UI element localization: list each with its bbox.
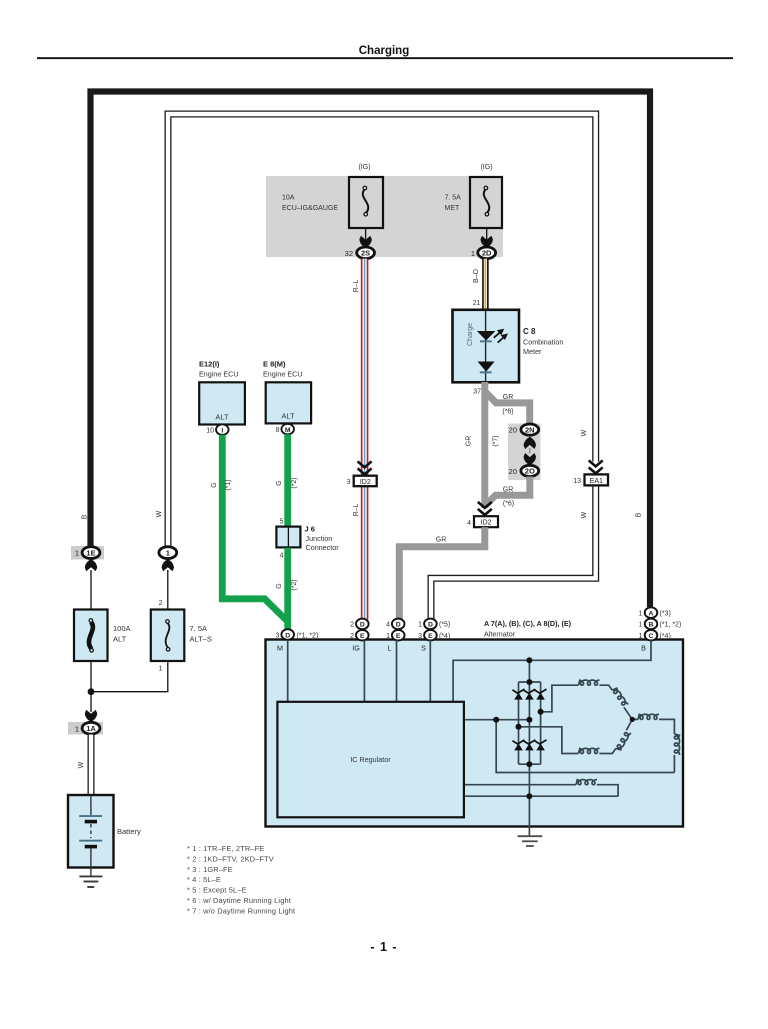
svg-text:Junction: Junction xyxy=(306,534,333,543)
svg-text:W: W xyxy=(581,429,588,436)
svg-text:G: G xyxy=(276,480,283,485)
connector arrow below 1 xyxy=(162,559,174,571)
svg-text:1: 1 xyxy=(386,633,390,640)
svg-text:* 4 : 5L–E: * 4 : 5L–E xyxy=(187,875,221,884)
terminal M connector D pin 3 xyxy=(276,629,319,640)
svg-text:E: E xyxy=(360,633,365,640)
svg-text:D: D xyxy=(360,622,365,629)
wire fuses to junction xyxy=(90,661,92,692)
svg-text:(*2): (*2) xyxy=(291,477,298,488)
svg-text:4: 4 xyxy=(467,520,471,527)
svg-text:7. 5A: 7. 5A xyxy=(190,624,208,633)
connector arrow below 1E xyxy=(85,559,97,571)
wire fuse1 to connector 2S xyxy=(365,228,367,240)
svg-text:(*7): (*7) xyxy=(493,435,500,446)
svg-text:M: M xyxy=(285,427,291,434)
svg-text:(*4): (*4) xyxy=(439,633,450,640)
svg-text:S: S xyxy=(421,644,426,653)
svg-text:R–L: R–L xyxy=(353,279,360,292)
wire G from E8 to J6 (green) xyxy=(284,434,291,527)
svg-text:(*2): (*2) xyxy=(291,579,298,590)
svg-text:GR: GR xyxy=(436,537,447,544)
stator coil 1 xyxy=(579,680,600,685)
svg-text:B: B xyxy=(641,644,646,653)
svg-text:Alternator: Alternator xyxy=(484,630,516,639)
svg-text:* 2 : 1KD–FTV, 2KD–FTV: * 2 : 1KD–FTV, 2KD–FTV xyxy=(187,854,274,863)
connector EA1 chevron xyxy=(589,460,603,473)
svg-text:1: 1 xyxy=(639,622,643,629)
svg-text:ALT: ALT xyxy=(215,413,229,422)
junction dots xyxy=(493,657,635,799)
svg-text:IG: IG xyxy=(352,644,360,653)
combination meter C8 box xyxy=(453,310,520,383)
gray pad behind 2N/2O xyxy=(508,424,541,481)
connector 2D xyxy=(471,247,496,259)
svg-text:ID2: ID2 xyxy=(360,479,371,486)
svg-text:10A: 10A xyxy=(282,195,295,202)
svg-text:2O: 2O xyxy=(525,467,535,476)
svg-text:E12(I): E12(I) xyxy=(199,360,220,369)
svg-text:2S: 2S xyxy=(361,249,370,258)
svg-text:1: 1 xyxy=(639,633,643,640)
connector ID2 chevron (GR wire) xyxy=(478,502,492,515)
svg-text:1A: 1A xyxy=(86,724,96,733)
svg-text:3: 3 xyxy=(418,633,422,640)
field coil wires xyxy=(464,784,576,786)
svg-text:MET: MET xyxy=(445,205,461,212)
svg-text:C 8: C 8 xyxy=(523,327,536,336)
svg-text:100A: 100A xyxy=(113,624,131,633)
svg-text:B–O: B–O xyxy=(473,268,480,283)
wire GR from 2O back to main (*6) xyxy=(485,477,530,507)
svg-text:D: D xyxy=(396,622,401,629)
connector 1A xyxy=(75,722,100,734)
svg-text:I: I xyxy=(221,427,223,434)
svg-text:B: B xyxy=(636,512,643,517)
svg-text:13: 13 xyxy=(573,478,581,485)
wire junction to 1A xyxy=(90,692,92,712)
ECU E12(I) box xyxy=(199,382,245,424)
svg-text:(*6): (*6) xyxy=(502,409,513,416)
ground alternator xyxy=(518,827,543,847)
connector arrows 2N to 2O xyxy=(524,437,536,449)
svg-text:L: L xyxy=(388,644,392,653)
title underline xyxy=(37,57,733,59)
wire W perimeter (double line) xyxy=(168,114,596,546)
wire phase3 return xyxy=(496,720,674,773)
svg-text:J 6: J 6 xyxy=(305,525,315,534)
rectifier diodes upper xyxy=(512,689,546,700)
svg-text:Charge: Charge xyxy=(467,323,474,346)
fuse 7.5A MET xyxy=(445,177,503,228)
pin 8 connector M xyxy=(276,424,294,434)
svg-text:ALT: ALT xyxy=(281,412,295,421)
footnote list xyxy=(187,844,295,915)
svg-text:(*4): (*4) xyxy=(660,633,671,640)
svg-text:* 6 : w/ Daytime Running Light: * 6 : w/ Daytime Running Light xyxy=(187,896,291,905)
fuse block (gray) xyxy=(266,176,503,257)
svg-text:37: 37 xyxy=(473,389,481,396)
svg-text:EA1: EA1 xyxy=(590,478,603,485)
junction node dot xyxy=(88,688,95,695)
wire GR from ID2 to alternator L terminal xyxy=(399,527,485,620)
wire 1 to fuse ALT-S xyxy=(167,570,169,610)
svg-text:4: 4 xyxy=(386,622,390,629)
connector 2S xyxy=(345,247,375,259)
svg-text:3: 3 xyxy=(276,632,280,639)
svg-text:ECU–IG&GAUGE: ECU–IG&GAUGE xyxy=(282,205,338,212)
svg-text:Engine ECU: Engine ECU xyxy=(263,370,303,379)
wire B-O from 2D to combination meter xyxy=(482,259,489,310)
svg-text:* 7 : w/o Daytime Running Ligh: * 7 : w/o Daytime Running Light xyxy=(187,906,295,915)
svg-text:GR: GR xyxy=(466,436,473,447)
svg-text:IC Regulator: IC Regulator xyxy=(350,755,391,764)
wire regulator to rectifier xyxy=(464,719,530,721)
fuse 10A ECU-IG&GAUGE xyxy=(282,177,383,228)
wire G from E12 (green) xyxy=(222,435,287,622)
ground battery xyxy=(79,868,102,888)
terminal IG connectors D/E xyxy=(350,619,369,641)
svg-text:2: 2 xyxy=(159,600,163,607)
svg-text:2N: 2N xyxy=(525,425,535,434)
svg-text:Meter: Meter xyxy=(523,347,542,356)
svg-text:G: G xyxy=(276,583,283,588)
svg-text:20: 20 xyxy=(509,467,517,476)
svg-text:Charging: Charging xyxy=(359,45,409,57)
svg-text:1: 1 xyxy=(471,249,475,258)
stator phase 1 xyxy=(541,685,579,712)
svg-text:Engine ECU: Engine ECU xyxy=(199,370,239,379)
svg-text:R–L: R–L xyxy=(353,503,360,516)
wire B battery feed (thick black, perimeter) xyxy=(91,92,651,608)
svg-text:(*1, *2): (*1, *2) xyxy=(660,622,682,629)
stator coil 1 diagonal xyxy=(612,687,628,707)
svg-text:(*6): (*6) xyxy=(503,501,514,508)
svg-text:1: 1 xyxy=(159,666,163,673)
svg-text:(IG): (IG) xyxy=(358,164,370,171)
svg-text:G: G xyxy=(211,482,218,487)
connector 1E xyxy=(75,547,100,559)
svg-text:W: W xyxy=(581,511,588,518)
svg-text:ID2: ID2 xyxy=(481,520,492,527)
svg-text:W: W xyxy=(78,761,85,768)
svg-text:- 1 -: - 1 - xyxy=(370,940,397,954)
alternator A7/A8 box xyxy=(266,640,684,827)
svg-text:7. 5A: 7. 5A xyxy=(445,195,462,202)
svg-text:(*1, *2): (*1, *2) xyxy=(297,632,319,639)
stator coil 2 xyxy=(579,748,600,753)
svg-text:4: 4 xyxy=(280,553,284,560)
svg-text:ALT–S: ALT–S xyxy=(190,635,212,644)
svg-text:GR: GR xyxy=(503,394,514,401)
svg-text:5: 5 xyxy=(280,519,284,526)
svg-text:GR: GR xyxy=(503,487,514,494)
fuse 7.5A ALT-S xyxy=(151,610,212,662)
wire G from J6 to alternator M terminal (green) xyxy=(284,548,291,630)
svg-text:2: 2 xyxy=(350,622,354,629)
diode in meter xyxy=(478,362,495,372)
internal terminal wires xyxy=(288,640,675,827)
svg-text:D: D xyxy=(428,622,433,629)
rectifier rails xyxy=(518,682,520,764)
wire W from EA1 down to alternator S terminal xyxy=(431,485,596,620)
svg-text:D: D xyxy=(285,632,290,639)
svg-text:2D: 2D xyxy=(482,249,492,258)
wire R-L from 2S to IG terminal (red-blue) xyxy=(361,259,369,620)
ECU E8(M) box xyxy=(266,382,311,423)
svg-text:8: 8 xyxy=(276,427,280,434)
wire 1E to fuse 100A xyxy=(90,570,92,610)
stator coil 2 diagonal xyxy=(616,730,631,751)
stator coil 3 xyxy=(638,714,659,719)
svg-text:ALT: ALT xyxy=(113,635,127,644)
svg-text:M: M xyxy=(277,644,283,653)
svg-text:1: 1 xyxy=(75,549,79,558)
fusible link 100A ALT xyxy=(74,610,131,662)
svg-text:(*5): (*5) xyxy=(439,622,450,629)
svg-text:E: E xyxy=(396,633,401,640)
svg-text:* 1 : 1TR–FE, 2TR–FE: * 1 : 1TR–FE, 2TR–FE xyxy=(187,844,264,853)
stator coil 3 vertical xyxy=(674,734,679,755)
rectifier diodes lower xyxy=(512,740,546,751)
field coil xyxy=(576,780,597,785)
svg-text:1E: 1E xyxy=(86,548,95,557)
svg-text:1: 1 xyxy=(639,610,643,617)
svg-text:(IG): (IG) xyxy=(480,164,492,171)
connector 1A gray pad xyxy=(68,722,103,735)
terminal S connectors D/E xyxy=(418,619,450,641)
svg-text:E 8(M): E 8(M) xyxy=(263,360,286,369)
stator phase 3 xyxy=(632,718,638,720)
svg-text:Battery: Battery xyxy=(117,827,141,836)
svg-text:* 5 : Except 5L–E: * 5 : Except 5L–E xyxy=(187,886,247,895)
svg-text:* 3 : 1GR–FE: * 3 : 1GR–FE xyxy=(187,865,233,874)
pin 10 connector I xyxy=(206,424,228,434)
wire GR branch to 2N (*6) xyxy=(485,392,530,425)
connector 1E gray pad xyxy=(71,546,104,560)
svg-text:20: 20 xyxy=(509,426,517,435)
connector 2N xyxy=(509,424,539,435)
IC Regulator box xyxy=(277,702,464,818)
svg-text:C: C xyxy=(649,633,654,640)
svg-text:Combination: Combination xyxy=(523,338,563,347)
svg-text:A 7(A), (B), (C), A 8(D), (E): A 7(A), (B), (C), A 8(D), (E) xyxy=(484,619,572,628)
svg-text:1: 1 xyxy=(166,549,170,558)
svg-text:E: E xyxy=(428,633,433,640)
battery box xyxy=(68,795,114,868)
svg-text:1: 1 xyxy=(75,724,79,733)
svg-text:(*3): (*3) xyxy=(660,610,671,617)
wire W from 1A to battery xyxy=(88,735,95,796)
junction connector J6 xyxy=(276,527,300,548)
svg-text:(*1): (*1) xyxy=(225,479,232,490)
connector 1 (W wire) xyxy=(159,547,177,559)
svg-text:B: B xyxy=(649,622,654,629)
wire GR main vertical from meter xyxy=(481,382,488,508)
wire B internal xyxy=(453,640,651,702)
LED charge lamp xyxy=(477,331,495,341)
stator phase 2 xyxy=(519,727,579,754)
connector 2O xyxy=(509,465,539,476)
terminal B connectors A/B/C xyxy=(639,607,682,640)
connector ID2 (R-L wire) pin 3 xyxy=(347,476,377,487)
connector EA1 xyxy=(573,474,608,485)
svg-text:10: 10 xyxy=(206,428,214,435)
svg-text:1: 1 xyxy=(418,622,422,629)
terminal letters xyxy=(277,644,646,653)
terminal L connectors D/E xyxy=(386,619,404,641)
connector ID2 chevron (R-L wire) xyxy=(358,461,372,474)
svg-text:W: W xyxy=(156,510,163,517)
svg-text:21: 21 xyxy=(473,300,481,307)
svg-text:32: 32 xyxy=(345,249,353,258)
svg-text:3: 3 xyxy=(347,479,351,486)
wire fuse2 to connector 2D xyxy=(486,228,488,240)
svg-text:A: A xyxy=(649,610,654,617)
svg-text:B: B xyxy=(82,514,89,519)
connector ID2 (GR wire) pin 4 xyxy=(467,516,498,527)
svg-text:2: 2 xyxy=(350,633,354,640)
svg-text:Connector: Connector xyxy=(306,543,340,552)
